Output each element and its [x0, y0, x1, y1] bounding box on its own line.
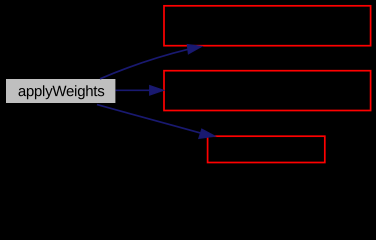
- edge: applyWeights -> box1 (arrowhead): [187, 44, 203, 54]
- node: callee box 2 (truncated, red border): [164, 71, 371, 111]
- edge: applyWeights -> box1 (line): [100, 49, 189, 79]
- edge: applyWeights -> box3 (line): [97, 105, 202, 134]
- node: callee box 1 (truncated, red border): [164, 6, 371, 46]
- edge: applyWeights -> box2 (arrowhead): [149, 85, 164, 95]
- label: applyWeights: [19, 85, 105, 99]
- edge: applyWeights -> box2 (line): [116, 89, 150, 91]
- node: applyWeights (current node, grey): [6, 79, 115, 103]
- node: callee box 3 (truncated, red border): [208, 136, 325, 162]
- edge: applyWeights -> box3 (arrowhead): [198, 129, 216, 139]
